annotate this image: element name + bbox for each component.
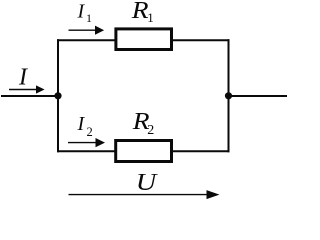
wire left lead	[1, 95, 59, 97]
svg-text:U: U	[136, 170, 158, 196]
arrow U	[69, 190, 220, 199]
label R1	[131, 0, 154, 25]
svg-text:2: 2	[147, 123, 154, 138]
node right junction dot	[225, 92, 232, 99]
wire bottom-left horizontal	[57, 150, 115, 152]
node left junction dot	[54, 92, 61, 99]
resistor R2	[116, 141, 172, 162]
wire right vertical	[228, 39, 230, 152]
wire top-left horizontal	[57, 39, 115, 41]
svg-text:I: I	[18, 64, 28, 90]
svg-text:I: I	[77, 1, 86, 23]
label I1	[77, 1, 93, 25]
wire left vertical	[57, 39, 59, 152]
wire right lead	[228, 95, 287, 97]
arrow I	[9, 85, 45, 93]
svg-text:1: 1	[147, 10, 154, 25]
wire bottom-right horizontal	[172, 150, 230, 152]
arrow I2	[68, 138, 105, 147]
svg-text:I: I	[77, 113, 86, 135]
svg-text:2: 2	[87, 125, 93, 139]
resistor R1	[116, 29, 172, 50]
arrow I1	[69, 26, 105, 35]
label I2	[77, 113, 93, 139]
label R2	[132, 109, 155, 138]
svg-text:1: 1	[86, 11, 92, 25]
svg-text:R: R	[131, 0, 149, 24]
wire top-right horizontal	[172, 39, 230, 41]
